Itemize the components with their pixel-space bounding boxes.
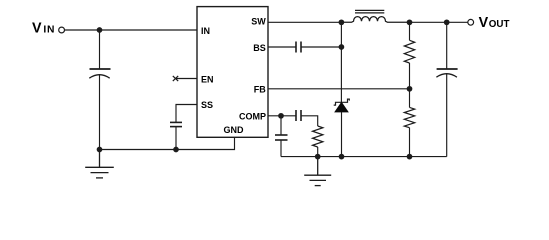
wire output rail (410, 21, 468, 23)
wire comp cap to comp resistor (301, 116, 318, 126)
capacitor C2 (soft-start) (170, 122, 182, 126)
svg-text:EN: EN (201, 74, 214, 84)
svg-text:GND: GND (224, 125, 245, 135)
node BS junction on SW branch (339, 44, 345, 50)
wire COMP pin to comp network (268, 115, 296, 117)
resistor R3 (comp) (313, 126, 323, 157)
wire left ground rail (100, 137, 235, 150)
wire FB pin to FB node (268, 88, 410, 90)
resistor R2 (feedback bottom) (404, 89, 414, 157)
node inductor output (407, 19, 413, 25)
node left rail at input cap (97, 147, 103, 153)
inductor L1 (341, 10, 409, 22)
EN no-connect X mark (173, 76, 178, 81)
node VIN junction (97, 27, 103, 33)
node bottom rail at R2 (407, 154, 413, 160)
svg-text:V: V (479, 15, 489, 31)
wire input cap to left ground rail (99, 75, 101, 150)
svg-text:IN: IN (43, 25, 55, 36)
wire soft-start cap to ground rail (175, 127, 177, 150)
wire VIN to IN pin (65, 29, 197, 31)
node bottom rail at diode (339, 154, 345, 160)
node left rail at soft-start cap (173, 147, 179, 153)
terminal VIN (59, 27, 65, 33)
wire bootstrap cap to SW node (301, 46, 341, 48)
node FB (407, 86, 413, 92)
svg-text:SS: SS (201, 100, 213, 110)
resistor R1 (feedback top) (404, 22, 414, 89)
node COMP (278, 113, 284, 119)
wire SW pin to SW node (268, 21, 341, 23)
ground (power stage) (304, 157, 331, 186)
capacitor C6 (comp shunt) (275, 116, 288, 157)
svg-text:OUT: OUT (489, 19, 510, 30)
svg-text:SW: SW (251, 17, 266, 27)
wire VIN node down to input cap (99, 30, 101, 69)
node output cap (444, 19, 450, 25)
wire EN pin (176, 78, 198, 80)
capacitor C5 (comp series) (296, 110, 301, 121)
wire bottom ground rail (281, 156, 447, 158)
ground (input side) (85, 150, 114, 178)
svg-text:FB: FB (254, 85, 266, 95)
capacitor C3 (bootstrap) (296, 42, 301, 53)
node bottom rail at comp resistor (315, 154, 321, 160)
node SW (339, 19, 345, 25)
capacitor C1 (input) (89, 69, 110, 78)
terminal VOUT (468, 19, 474, 25)
wire BS pin to bootstrap cap (268, 46, 296, 48)
svg-text:COMP: COMP (239, 112, 266, 122)
regulator U1 (197, 7, 268, 138)
svg-text:BS: BS (253, 43, 266, 53)
wire SS pin to soft-start cap (176, 105, 197, 123)
capacitor C4 (output) (436, 22, 457, 156)
wire SW node down to diode (340, 22, 342, 102)
diode D1 (Schottky) (334, 99, 350, 157)
svg-text:IN: IN (201, 26, 210, 36)
VOUT label (479, 15, 510, 31)
VIN label (32, 21, 55, 37)
svg-text:V: V (32, 21, 42, 37)
